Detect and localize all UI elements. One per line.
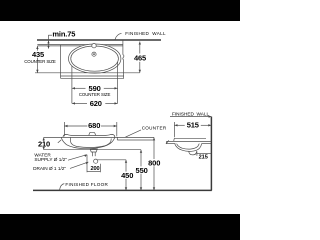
basin inner oval (plan): [71, 46, 119, 71]
515 extension left: [173, 122, 175, 137]
svg-text:COUNTER: COUNTER: [142, 126, 167, 131]
svg-text:215: 215: [199, 155, 208, 161]
bowl outer (elevation): [61, 137, 115, 148]
min.75 dimension line: [48, 35, 50, 48]
long bottom extension (210/550): [44, 149, 141, 151]
680 left extension: [63, 122, 65, 136]
svg-text:200: 200: [90, 166, 99, 172]
counter slab bottom right: [117, 139, 154, 141]
water supply leader: [68, 155, 87, 161]
680 right extension: [116, 122, 118, 136]
faucet (elevation): [89, 132, 96, 135]
counter slab (side): [167, 140, 212, 142]
435 dimension line: [36, 46, 38, 51]
counter front edge double line: [61, 75, 125, 77]
465 dimension line: [139, 42, 141, 54]
bottom black bar: [0, 214, 240, 240]
drain flange (elevation): [90, 149, 97, 152]
wall line (plan): [37, 39, 161, 41]
basin outer oval (plan): [69, 44, 121, 73]
top black bar: [0, 0, 240, 21]
svg-text:450: 450: [121, 171, 133, 180]
450 extension: [97, 159, 126, 161]
590 dimension line: [72, 87, 86, 89]
extension line under oval to 465: [35, 72, 140, 74]
counter cut slash (left): [58, 140, 61, 143]
overflow circle (plan): [92, 52, 96, 56]
bowl inner (elevation): [71, 138, 112, 148]
min.75 leader dash: [48, 34, 52, 36]
svg-text:FINISHED WALL: FINISHED WALL: [172, 111, 209, 116]
svg-text:FINISHED WALL: FINISHED WALL: [125, 31, 166, 36]
svg-text:515: 515: [187, 121, 199, 130]
svg-text:COUNTER SIZE: COUNTER SIZE: [24, 59, 56, 64]
wall line (side): [210, 117, 212, 191]
svg-text:680: 680: [88, 121, 100, 130]
svg-text:620: 620: [90, 99, 102, 108]
svg-text:min.75: min.75: [52, 29, 75, 38]
basin rim dome (elevation): [63, 135, 115, 138]
faucet hole (plan): [92, 44, 96, 48]
bowl inner (side): [177, 144, 200, 150]
counter leader: [125, 130, 141, 137]
bowl outer (side): [175, 144, 202, 152]
drain pipe (elevation): [91, 152, 93, 156]
basin rim top (side): [174, 137, 206, 139]
svg-text:210: 210: [38, 139, 50, 148]
620 dimension line: [72, 102, 87, 104]
svg-text:550: 550: [136, 166, 148, 175]
590/620 left extension: [71, 66, 73, 103]
215 dimension: [196, 151, 198, 156]
svg-text:SUPPLY Ø 1/2": SUPPLY Ø 1/2": [34, 157, 67, 162]
svg-text:COUNTER SIZE: COUNTER SIZE: [79, 92, 111, 97]
counter left edge: [60, 45, 62, 79]
basin front face (side): [173, 138, 176, 141]
leader underline to wall (side): [170, 116, 211, 118]
800 dimension line: [153, 137, 155, 159]
svg-text:435: 435: [32, 50, 44, 59]
counter break line with squiggle: [123, 40, 124, 78]
210 dimension line: [43, 137, 45, 141]
680 dimension line: [64, 125, 87, 127]
supply point circle: [94, 159, 98, 163]
svg-text:FINISHED FLOOR: FINISHED FLOOR: [65, 182, 108, 187]
svg-text:800: 800: [148, 158, 160, 167]
590/620 right extension: [117, 62, 119, 103]
counter back edge double line: [37, 44, 123, 46]
450 dimension line: [125, 160, 127, 172]
svg-text:DRAIN Ø 1 1/2": DRAIN Ø 1 1/2": [33, 166, 66, 171]
slab right end vertical: [116, 137, 118, 140]
finished floor leader: [60, 184, 65, 191]
drain leader: [70, 162, 88, 168]
200 dimension: [86, 155, 88, 172]
slab bottom right of bowl (side): [202, 143, 212, 145]
550 dimension line: [140, 150, 142, 167]
515 dimension line: [174, 124, 184, 126]
floor line: [33, 189, 212, 191]
trap bump (side): [189, 151, 197, 155]
leader to wall (plan): [115, 33, 122, 39]
svg-text:465: 465: [134, 54, 146, 63]
counter top line: [44, 136, 154, 138]
